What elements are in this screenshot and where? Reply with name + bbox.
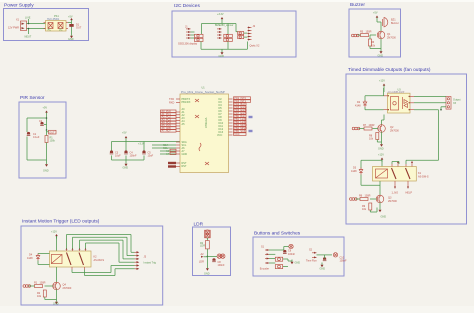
svg-text:Buzzer: Buzzer [391, 22, 399, 25]
svg-text:DC: DC [59, 29, 63, 32]
svg-text:Instant Motion Trigger (LED ou: Instant Motion Trigger (LED outputs) [22, 219, 100, 225]
svg-text:150R: 150R [366, 31, 372, 34]
svg-text:J2: J2 [253, 25, 256, 28]
svg-text:HLK-PM01: HLK-PM01 [47, 18, 60, 21]
svg-text:10k: 10k [37, 295, 42, 298]
svg-text:GND: GND [53, 303, 59, 306]
svg-text:+12V: +12V [379, 80, 385, 83]
svg-text:J1: J1 [185, 26, 188, 29]
svg-text:Qwiic X2: Qwiic X2 [250, 45, 260, 48]
svg-text:100nF: 100nF [218, 264, 226, 267]
svg-text:GND: GND [43, 170, 49, 173]
svg-text:GND: GND [378, 148, 384, 151]
svg-text:4148: 4148 [355, 105, 361, 108]
svg-text:GND: GND [204, 273, 210, 276]
svg-text:S1: S1 [261, 246, 265, 249]
svg-text:GND: GND [68, 38, 74, 41]
svg-text:GND: GND [123, 167, 129, 170]
svg-text:AS-DM-S: AS-DM-S [94, 259, 105, 262]
svg-text:Pro_Mini_Clone_Socket_NoISP: Pro_Mini_Clone_Socket_NoISP [181, 90, 225, 94]
svg-text:PB1/RX: PB1/RX [182, 101, 191, 104]
svg-text:+5V: +5V [373, 12, 378, 15]
svg-text:GND: GND [219, 55, 225, 58]
svg-text:2N7000: 2N7000 [63, 287, 72, 290]
svg-text:Time Run: Time Run [306, 260, 317, 263]
svg-text:+12V: +12V [378, 154, 384, 157]
svg-text:10uF: 10uF [115, 155, 121, 158]
svg-text:RST: RST [182, 165, 187, 168]
svg-text:A2: A2 [201, 253, 205, 256]
svg-text:10k: 10k [371, 45, 376, 48]
svg-text:LDR: LDR [199, 261, 204, 264]
svg-text:GND: GND [320, 268, 326, 271]
svg-text:R1: R1 [34, 282, 38, 285]
svg-text:10k: 10k [362, 208, 367, 211]
svg-text:100R: 100R [40, 282, 46, 285]
svg-text:2N7000: 2N7000 [388, 200, 397, 203]
svg-text:A7: A7 [166, 153, 170, 156]
svg-text:100k: 100k [50, 140, 56, 143]
svg-text:S2: S2 [309, 249, 313, 252]
svg-text:RXD: RXD [169, 102, 174, 105]
svg-text:LDR: LDR [200, 245, 205, 248]
svg-text:100R: 100R [369, 124, 375, 127]
svg-text:100R: 100R [365, 195, 371, 198]
svg-text:X1: X1 [16, 19, 20, 22]
svg-text:U1: U1 [202, 87, 206, 90]
svg-text:OUT: OUT [76, 27, 82, 30]
svg-text:R6: R6 [359, 195, 363, 198]
svg-text:I2C Devices: I2C Devices [174, 3, 200, 9]
svg-text:Buzzer: Buzzer [350, 2, 365, 8]
svg-text:Buttons and Switches: Buttons and Switches [254, 231, 301, 237]
svg-text:X3: X3 [453, 102, 457, 105]
svg-text:HELP: HELP [406, 192, 413, 195]
svg-text:+5V: +5V [43, 107, 48, 110]
svg-text:R5: R5 [360, 31, 364, 34]
svg-text:PIR Sensor: PIR Sensor [20, 95, 45, 101]
svg-text:10uF: 10uF [148, 155, 154, 158]
svg-text:2N7000: 2N7000 [390, 130, 399, 133]
svg-text:Instant Trig: Instant Trig [144, 262, 157, 265]
svg-text:100nF: 100nF [288, 253, 296, 256]
svg-text:ATMEGA: ATMEGA [205, 117, 208, 128]
svg-text:VCC: VCC [217, 134, 222, 137]
svg-text:LIVE: LIVE [25, 17, 31, 20]
svg-text:4148: 4148 [351, 170, 357, 173]
svg-text:+3.3V: +3.3V [217, 13, 224, 16]
svg-text:+12V: +12V [51, 231, 57, 234]
svg-text:+5V: +5V [122, 132, 127, 135]
svg-text:GND: GND [381, 216, 387, 219]
svg-text:VCC: VCC [234, 133, 239, 136]
svg-text:Timed Dimmable Outputs (fan ou: Timed Dimmable Outputs (fan outputs) [348, 67, 431, 73]
svg-text:100nF: 100nF [130, 155, 138, 158]
svg-text:10k: 10k [369, 138, 374, 141]
svg-text:0.1uF: 0.1uF [33, 136, 40, 139]
svg-text:AC: AC [48, 29, 52, 32]
svg-text:12V PWR: 12V PWR [8, 27, 19, 30]
svg-text:J3: J3 [144, 256, 147, 259]
svg-text:R7: R7 [363, 124, 367, 127]
svg-text:2N7000: 2N7000 [387, 37, 396, 40]
svg-text:NEUT: NEUT [25, 36, 32, 39]
svg-text:+5V: +5V [68, 16, 73, 19]
svg-text:Power Supply: Power Supply [4, 3, 34, 9]
svg-text:A7_AD7: A7_AD7 [162, 130, 172, 133]
svg-text:4148: 4148 [27, 257, 33, 260]
svg-text:BME280_sensor: BME280_sensor [215, 24, 234, 27]
svg-text:AQ-G3MB-202P: AQ-G3MB-202P [388, 91, 405, 94]
svg-text:GND: GND [378, 55, 384, 58]
svg-text:GND: GND [295, 262, 301, 265]
svg-text:+3.3V: +3.3V [138, 143, 145, 146]
svg-text:1_NO: 1_NO [392, 192, 399, 195]
svg-text:OUT: OUT [49, 131, 55, 134]
svg-text:AS-DM-S: AS-DM-S [418, 176, 429, 179]
svg-text:100nF: 100nF [340, 259, 348, 262]
svg-text:SSD1306 display: SSD1306 display [178, 43, 198, 46]
svg-text:Encoder: Encoder [260, 267, 269, 270]
svg-text:GND: GND [182, 153, 188, 156]
